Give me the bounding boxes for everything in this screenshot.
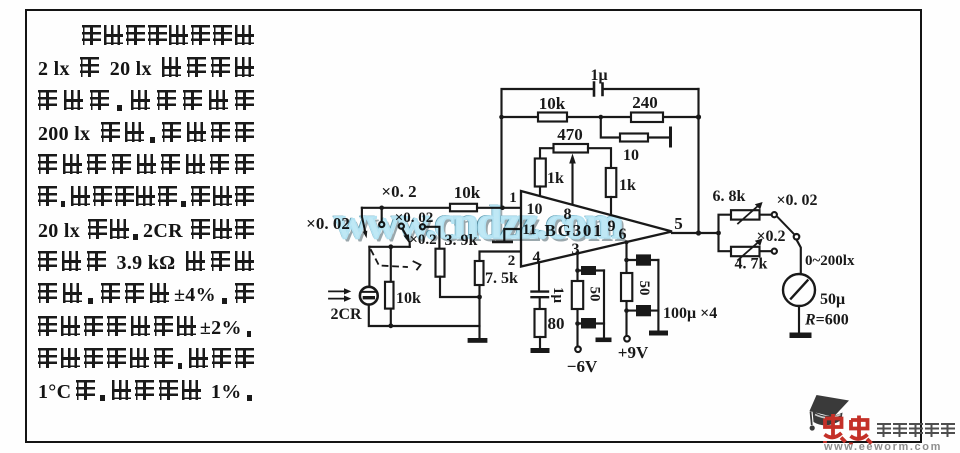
wire feedback right vertical — [697, 89, 699, 233]
resistor 10k shunt — [385, 282, 421, 309]
svg-text:+9V: +9V — [618, 343, 649, 362]
mechanical link dashed — [371, 250, 407, 267]
logo graduation cap crown — [813, 411, 843, 426]
svg-text:10k: 10k — [539, 94, 566, 113]
capacitor C1 1u — [590, 67, 607, 96]
resistor 50 left — [572, 281, 603, 309]
switch contact stub — [381, 208, 383, 222]
rheostat 4.7k — [731, 239, 768, 273]
wire 1k left bottom — [539, 187, 541, 197]
terminal +9V — [618, 336, 649, 362]
capacitor 100u a — [578, 266, 605, 275]
node junction output split — [716, 231, 721, 236]
node junction 240 right — [696, 114, 701, 119]
node junction cap b — [575, 321, 580, 326]
switch contact c — [420, 224, 425, 229]
svg-text:6. 8k: 6. 8k — [713, 188, 746, 205]
capacitor 1u pin4 — [532, 287, 567, 304]
terminal -6V — [567, 347, 598, 377]
capacitor 100u b — [578, 318, 605, 329]
resistor 10k feedback — [538, 94, 567, 122]
potentiometer 470 — [554, 125, 589, 205]
svg-text:7. 5k: 7. 5k — [485, 270, 518, 287]
wire to 4.7k — [719, 233, 772, 251]
ground caps right — [649, 331, 668, 336]
wire pole to meter — [797, 240, 801, 275]
svg-text:2: 2 — [508, 253, 516, 269]
ground pin4 — [539, 337, 541, 348]
wire caps to ground — [603, 271, 605, 338]
svg-text:100μ ×4: 100μ ×4 — [663, 305, 717, 322]
switch wiper 1 — [361, 208, 363, 217]
resistor 10 — [620, 134, 648, 165]
wire pin2 to 7.5k — [480, 252, 522, 262]
node junction bottom rail — [388, 323, 393, 328]
logo red chongchong glyph 1 — [825, 414, 846, 443]
resistor 240 — [631, 93, 663, 122]
capacitor 100u d — [627, 305, 659, 316]
wire output — [672, 232, 719, 234]
capacitor 100u c — [627, 254, 659, 265]
logo red chongchong glyph 2 — [851, 416, 872, 445]
resistor 1k right — [606, 168, 636, 197]
node pin 3 on edge — [576, 251, 580, 255]
svg-text:10k: 10k — [396, 290, 421, 307]
svg-text:×0.2: ×0.2 — [756, 228, 785, 245]
node junction cap a — [575, 268, 580, 273]
switch contact b — [399, 224, 404, 229]
wire to compensation resistor 10 — [601, 117, 669, 138]
ground stub pin 11 — [504, 229, 521, 241]
svg-text:1k: 1k — [619, 177, 636, 194]
wire pin 6 to +9V — [625, 242, 627, 335]
switch contact a — [379, 222, 384, 227]
svg-text:1μ: 1μ — [550, 287, 566, 304]
meter 50u — [783, 274, 849, 329]
wire input to op-amp — [362, 207, 521, 209]
svg-text:80: 80 — [548, 314, 565, 333]
node junction feedback left — [499, 115, 504, 120]
resistor 7.5k — [475, 261, 518, 287]
wire 10k shunt top — [390, 247, 392, 282]
resistor 80 — [535, 297, 565, 337]
terminal bar — [669, 128, 672, 146]
logo graduation cap tassel — [811, 412, 812, 426]
node junction cap d — [624, 308, 629, 313]
resistor 1k left — [535, 159, 564, 188]
svg-text:50μ: 50μ — [820, 291, 845, 308]
wire top right segment — [604, 88, 699, 90]
watermark www.cndzz.com — [334, 196, 664, 250]
node junction shunt — [388, 244, 393, 249]
wire to 6.8k — [719, 215, 772, 233]
svg-text:2CR: 2CR — [330, 306, 362, 323]
wire 1k right bottom — [610, 197, 612, 216]
switch contact 4.7k — [772, 249, 777, 254]
resistor 50 right — [621, 273, 652, 301]
wire caps to ground right — [657, 260, 659, 331]
range switch pole — [778, 217, 800, 239]
node junction 3.9k/7.5k — [477, 295, 482, 300]
svg-text:50: 50 — [587, 287, 603, 302]
svg-text:5: 5 — [674, 214, 683, 233]
wire 3.9k bottom — [440, 277, 480, 297]
wire meter to ground — [798, 306, 800, 333]
svg-text:10: 10 — [623, 147, 639, 164]
svg-text:R=600: R=600 — [804, 312, 849, 329]
switch contact 6.8k — [772, 212, 777, 217]
bottom rail wire — [369, 305, 480, 326]
ground caps left — [596, 338, 612, 343]
wire contact c to 3.9k — [425, 227, 440, 249]
svg-text:0~200lx: 0~200lx — [805, 253, 855, 269]
ground meter — [790, 333, 812, 339]
ground left — [468, 338, 488, 343]
node junction input/feedback — [500, 206, 505, 211]
svg-text:×0. 02: ×0. 02 — [776, 192, 817, 209]
wire 10k shunt bottom — [390, 309, 392, 326]
wire feedback resistor row — [502, 116, 699, 118]
rheostat 6.8k — [713, 188, 763, 224]
op-amp BG301 — [508, 190, 683, 269]
svg-text:4. 7k: 4. 7k — [735, 256, 768, 273]
eeworm logo — [780, 390, 960, 453]
logo gray text 电子下载站 — [877, 423, 891, 437]
wire 2CR top — [368, 247, 370, 287]
photocell 2CR — [329, 287, 378, 323]
wire 7.5k branch vertical — [478, 285, 480, 339]
svg-text:1μ: 1μ — [590, 67, 607, 84]
svg-text:240: 240 — [632, 93, 658, 112]
switch wiper 2 — [402, 229, 407, 237]
svg-text:1k: 1k — [547, 170, 564, 187]
wire 470 right to 1k — [588, 148, 611, 168]
wire pin 3 to -6V — [576, 253, 578, 346]
svg-text:470: 470 — [557, 125, 583, 144]
logo graduation cap highlight band — [815, 415, 841, 418]
logo url — [824, 441, 942, 453]
node pin 6 on edge — [625, 240, 629, 244]
wire pin 4 — [538, 262, 540, 291]
wire feedback left vertical and top-left segment — [502, 89, 593, 208]
node junction switch top — [379, 206, 384, 211]
node junction output/feedback — [696, 230, 701, 235]
svg-text:−6V: −6V — [567, 357, 598, 376]
resistor 10k input — [450, 183, 481, 211]
resistor 3.9k — [436, 249, 445, 277]
node junction 10k-240 — [599, 115, 604, 120]
svg-text:50: 50 — [636, 281, 652, 296]
wire 470 left to 1k — [540, 148, 554, 158]
switch common node line — [369, 246, 409, 248]
node junction cap c — [624, 258, 629, 263]
logo graduation cap board — [810, 395, 850, 417]
